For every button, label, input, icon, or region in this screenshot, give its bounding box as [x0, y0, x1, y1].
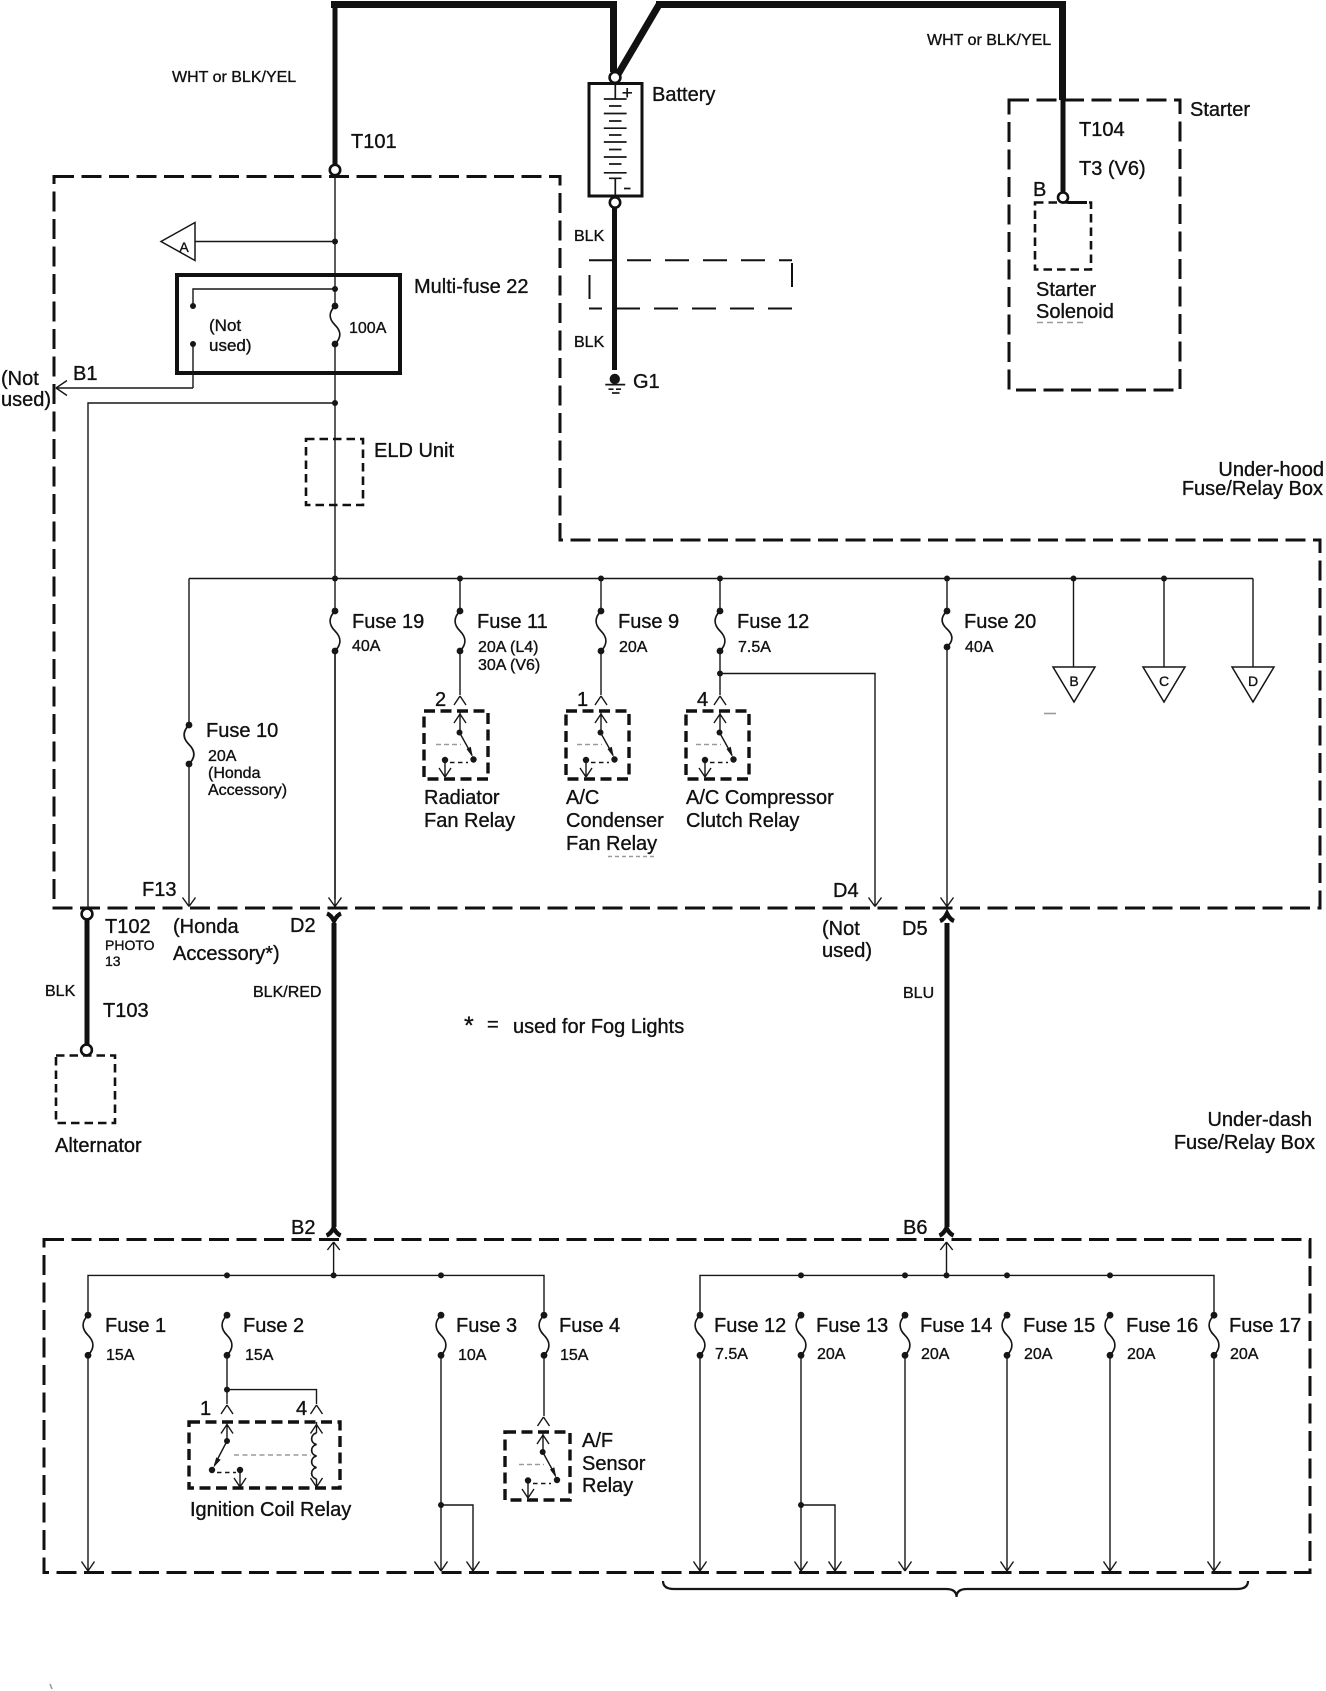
- node B1 arrow at box edge: [56, 381, 67, 396]
- svg-text:1: 1: [577, 689, 588, 711]
- svg-text:Radiator: Radiator: [424, 787, 500, 809]
- svg-text:BLK: BLK: [45, 983, 76, 1000]
- svg-text:Accessory*): Accessory*): [173, 943, 280, 965]
- wire fuse13 outputs: [800, 1355, 802, 1505]
- wire fuse14 output: [899, 1355, 912, 1571]
- wire fuse9 to condenser fan relay: [600, 651, 602, 695]
- wire T101 feed drop: [333, 6, 338, 164]
- svg-text:BLU: BLU: [903, 985, 934, 1002]
- wire fuse4 to a/f sensor relay: [543, 1355, 545, 1416]
- svg-text:Fuse 2: Fuse 2: [243, 1315, 304, 1337]
- svg-text:B6: B6: [903, 1217, 927, 1239]
- relay a/f sensor: [505, 1432, 570, 1500]
- svg-text:A/C Compressor: A/C Compressor: [686, 787, 834, 809]
- svg-text:Fuse 14: Fuse 14: [920, 1315, 992, 1337]
- fuse 20: [942, 608, 1036, 656]
- wire fuse12 output: [694, 1355, 707, 1571]
- svg-text:20A: 20A: [619, 639, 648, 656]
- wire to connector D triangle: [1252, 579, 1254, 668]
- wire fuse12 to D4 branch: [720, 651, 882, 907]
- svg-text:G1: G1: [633, 371, 660, 393]
- node alternator terminal: [81, 1045, 92, 1056]
- svg-text:Fuse 15: Fuse 15: [1023, 1315, 1095, 1337]
- connector B triangle: [1053, 667, 1095, 702]
- under-hood fuse/relay box dashed outline: [54, 177, 1320, 909]
- fuse 19: [330, 608, 424, 655]
- relay radiator fan: [424, 711, 488, 779]
- wire fuse10 output to F13: [183, 764, 196, 907]
- fuse 9 branch: [600, 579, 602, 612]
- svg-text:Under-dash: Under-dash: [1207, 1109, 1312, 1131]
- relay ignition coil: [189, 1422, 340, 1488]
- svg-text:Fuse 1: Fuse 1: [105, 1315, 166, 1337]
- battery B1: [589, 72, 715, 208]
- wire fuse2 output split: [226, 1355, 228, 1389]
- fuse 13: [796, 1312, 888, 1363]
- multi-fuse 22 box: [177, 275, 400, 373]
- alternator dashed box: [56, 1056, 115, 1124]
- svg-text:*: *: [464, 1012, 474, 1040]
- svg-text:20A: 20A: [1024, 1346, 1053, 1363]
- svg-text:D: D: [1248, 673, 1258, 689]
- wire BLK/RED D2 to B2: [332, 923, 337, 1227]
- fuse 11: [455, 608, 548, 674]
- svg-text:(Honda: (Honda: [208, 765, 261, 782]
- svg-text:Battery: Battery: [652, 84, 715, 106]
- wire B1 branch from multi-fuse: [57, 344, 193, 388]
- wire fuse19 output to D2: [329, 651, 342, 907]
- node T102 terminal: [82, 909, 93, 920]
- connector A triangle: [161, 223, 195, 261]
- svg-text:A/F: A/F: [582, 1430, 613, 1452]
- wire fuse16 output: [1104, 1355, 1117, 1571]
- node fuse12 output junction: [717, 671, 723, 677]
- node tap inside multi-fuse: [332, 286, 338, 292]
- svg-text:20A: 20A: [921, 1346, 950, 1363]
- wire starter feed drop: [1059, 1, 1066, 100]
- svg-text:B: B: [1033, 179, 1046, 201]
- svg-text:used): used): [822, 940, 872, 962]
- svg-text:15A: 15A: [560, 1347, 589, 1364]
- node T101 terminal: [330, 165, 340, 175]
- svg-text:(Not: (Not: [209, 316, 241, 335]
- node not-used fuse top: [190, 303, 196, 309]
- pin a/f sensor relay: [538, 1417, 550, 1426]
- fuse 12 under-hood branch: [719, 579, 721, 612]
- svg-text:Fuse/Relay Box: Fuse/Relay Box: [1182, 478, 1323, 500]
- svg-text:10A: 10A: [458, 1347, 487, 1364]
- stray mark: [1044, 713, 1056, 715]
- svg-text:WHT or BLK/YEL: WHT or BLK/YEL: [172, 69, 296, 86]
- svg-text:used for Fog Lights: used for Fog Lights: [513, 1016, 684, 1038]
- svg-text:T101: T101: [351, 131, 397, 153]
- wire BLK T102 to alternator: [85, 919, 90, 1045]
- fuse 9: [596, 608, 679, 656]
- svg-text:used): used): [1, 389, 51, 411]
- fuse 20 branch: [946, 579, 948, 612]
- wire starter feed inside box: [1061, 98, 1066, 192]
- svg-text:used): used): [209, 336, 252, 355]
- under-dash fuse/relay box dashed outline: [44, 1240, 1310, 1573]
- svg-text:100A: 100A: [349, 320, 387, 337]
- starter solenoid dashed box: [1068, 201, 1088, 204]
- pin 1 ignition coil relay: [221, 1405, 233, 1414]
- svg-text:Solenoid: Solenoid: [1036, 301, 1114, 323]
- svg-text:Sensor: Sensor: [582, 1453, 646, 1475]
- svg-text:20A: 20A: [208, 748, 237, 765]
- svg-text:Fuse/Relay Box: Fuse/Relay Box: [1174, 1132, 1315, 1154]
- svg-text:4: 4: [296, 1398, 307, 1420]
- fuse 100A element: [330, 303, 387, 348]
- svg-text:C: C: [1159, 673, 1169, 689]
- relay a/c condenser fan: [566, 711, 629, 779]
- svg-text:(Honda: (Honda: [173, 916, 239, 938]
- fuse 4: [539, 1312, 620, 1364]
- wire fuse15 output: [1001, 1355, 1014, 1571]
- wire fuse17 output: [1208, 1355, 1221, 1571]
- svg-text:Fuse 10: Fuse 10: [206, 720, 278, 742]
- wire fuse20 output to D5: [941, 647, 954, 907]
- svg-text:7.5A: 7.5A: [738, 639, 771, 656]
- svg-text:Starter: Starter: [1036, 279, 1096, 301]
- svg-text:Relay: Relay: [582, 1475, 633, 1497]
- wire fuse1 output: [82, 1355, 95, 1571]
- fuse 10 branch wire: [188, 579, 190, 726]
- svg-text:Clutch Relay: Clutch Relay: [686, 810, 799, 832]
- fuse 2: [222, 1312, 304, 1364]
- node junction below multi-fuse: [332, 400, 338, 406]
- svg-text:A/C: A/C: [566, 787, 599, 809]
- node bus junctions left: [224, 1272, 230, 1278]
- ELD unit dashed box: [306, 439, 363, 505]
- svg-text:PHOTO: PHOTO: [105, 937, 155, 953]
- svg-text:40A: 40A: [965, 639, 994, 656]
- node not-used fuse bottom: [190, 341, 196, 347]
- wire BLK battery negative to ground: [612, 208, 617, 370]
- svg-text:Fuse 12: Fuse 12: [714, 1315, 786, 1337]
- wire starter feed top horizontal: [656, 1, 1063, 8]
- fuse 15: [1002, 1312, 1095, 1363]
- relay a/c compressor clutch: [686, 711, 749, 779]
- wire battery feed drop to battery positive: [610, 1, 617, 72]
- svg-text:20A (L4): 20A (L4): [478, 639, 538, 656]
- svg-text:Starter: Starter: [1190, 99, 1250, 121]
- svg-text:Multi-fuse 22: Multi-fuse 22: [414, 276, 529, 298]
- wire branch to T102: [88, 403, 335, 908]
- node junction on feed at A tap: [332, 239, 338, 245]
- svg-text:D2: D2: [290, 915, 316, 937]
- pin 4 compressor clutch relay: [714, 696, 726, 705]
- svg-text:B1: B1: [73, 363, 97, 385]
- svg-text:Fuse 11: Fuse 11: [477, 611, 548, 633]
- svg-text:Fuse 3: Fuse 3: [456, 1315, 517, 1337]
- connector C triangle: [1143, 667, 1185, 702]
- svg-text:15A: 15A: [106, 1347, 135, 1364]
- fuse 12 under-hood: [715, 608, 809, 656]
- wire battery feed top left horizontal: [331, 1, 613, 8]
- svg-text:A: A: [179, 239, 189, 255]
- svg-text:ELD Unit: ELD Unit: [374, 440, 454, 462]
- svg-text:(Not: (Not: [822, 918, 860, 940]
- node B starter terminal: [1058, 193, 1068, 203]
- svg-text:Fan Relay: Fan Relay: [424, 810, 515, 832]
- wire to connector B triangle: [1073, 579, 1075, 668]
- svg-text:(Not: (Not: [1, 368, 39, 390]
- wire under-dash right bus: [700, 1275, 1214, 1315]
- svg-text:B: B: [1069, 673, 1078, 689]
- connector D triangle: [1232, 667, 1274, 702]
- svg-text:20A: 20A: [817, 1346, 846, 1363]
- svg-text:Fuse 9: Fuse 9: [618, 611, 679, 633]
- svg-text:F13: F13: [142, 879, 176, 901]
- svg-text:15A: 15A: [245, 1347, 274, 1364]
- fuse 14: [900, 1312, 992, 1363]
- svg-text:T103: T103: [103, 1000, 149, 1022]
- fuse 3: [436, 1312, 517, 1364]
- svg-text:1: 1: [200, 1398, 211, 1420]
- svg-text:7.5A: 7.5A: [715, 1346, 748, 1363]
- wire to connector C triangle: [1163, 579, 1165, 668]
- starter assembly dashed box: [1009, 100, 1180, 390]
- svg-text:Fuse 4: Fuse 4: [559, 1315, 620, 1337]
- wire multi-fuse not-used branch: [193, 289, 335, 306]
- svg-text:BLK: BLK: [574, 334, 605, 351]
- svg-text:D5: D5: [902, 918, 928, 940]
- svg-text:BLK/RED: BLK/RED: [253, 984, 321, 1001]
- fuse 10: [184, 720, 287, 799]
- svg-text:Accessory): Accessory): [208, 782, 287, 799]
- wire fuse3 outputs: [440, 1355, 442, 1505]
- wire main feed T101 down through multi-fuse: [334, 176, 336, 900]
- pin 2 radiator fan relay: [454, 696, 466, 705]
- brace under right fuse group: [663, 1581, 1248, 1597]
- svg-text:13: 13: [105, 953, 121, 969]
- fuse 1: [83, 1312, 166, 1364]
- svg-text:D4: D4: [833, 880, 859, 902]
- stray mark bottom left: [50, 1684, 52, 1689]
- svg-text:=: =: [487, 1014, 499, 1036]
- svg-text:30A (V6): 30A (V6): [478, 657, 540, 674]
- svg-text:Alternator: Alternator: [55, 1135, 142, 1157]
- wire fuse12 to compressor clutch relay: [719, 674, 721, 696]
- wire fuse11 to radiator fan relay: [459, 651, 461, 695]
- ground G1: [605, 371, 659, 393]
- fuse 12 under-dash: [695, 1312, 786, 1363]
- fuse 11 branch: [459, 579, 461, 612]
- svg-text:20A: 20A: [1230, 1346, 1259, 1363]
- svg-text:WHT or BLK/YEL: WHT or BLK/YEL: [927, 32, 1051, 49]
- pin 1 condenser fan relay: [595, 696, 607, 705]
- pin 4 ignition coil relay: [311, 1405, 323, 1414]
- svg-text:T3 (V6): T3 (V6): [1079, 158, 1146, 180]
- svg-text:T102: T102: [105, 916, 151, 938]
- svg-text:Fuse 19: Fuse 19: [352, 611, 424, 633]
- svg-text:Condenser: Condenser: [566, 810, 664, 832]
- svg-text:B2: B2: [291, 1217, 315, 1239]
- svg-text:4: 4: [697, 689, 708, 711]
- node bus junctions right: [798, 1272, 804, 1278]
- wire under-hood distribution bus: [189, 578, 1253, 580]
- svg-text:Ignition Coil Relay: Ignition Coil Relay: [190, 1499, 351, 1521]
- svg-text:Fuse 12: Fuse 12: [737, 611, 809, 633]
- svg-text:40A: 40A: [352, 638, 381, 655]
- svg-text:Fuse 17: Fuse 17: [1229, 1315, 1301, 1337]
- wire diagonal battery positive to starter feed: [617, 3, 660, 76]
- wire under-dash left bus: [88, 1275, 544, 1315]
- svg-text:Fan Relay: Fan Relay: [566, 833, 657, 855]
- svg-text:T104: T104: [1079, 119, 1125, 141]
- wire BLU D5 to B6: [945, 923, 950, 1227]
- node bus junctions: [332, 576, 338, 582]
- svg-text:BLK: BLK: [574, 228, 605, 245]
- svg-text:20A: 20A: [1127, 1346, 1156, 1363]
- svg-text:Fuse 13: Fuse 13: [816, 1315, 888, 1337]
- dashed harness box across battery ground wire: [589, 260, 792, 308]
- svg-text:2: 2: [435, 689, 446, 711]
- wire from triangle A to main feed: [195, 241, 335, 243]
- svg-text:Fuse 20: Fuse 20: [964, 611, 1036, 633]
- svg-text:Fuse 16: Fuse 16: [1126, 1315, 1198, 1337]
- fuse 17: [1209, 1312, 1301, 1363]
- fuse 16: [1105, 1312, 1198, 1363]
